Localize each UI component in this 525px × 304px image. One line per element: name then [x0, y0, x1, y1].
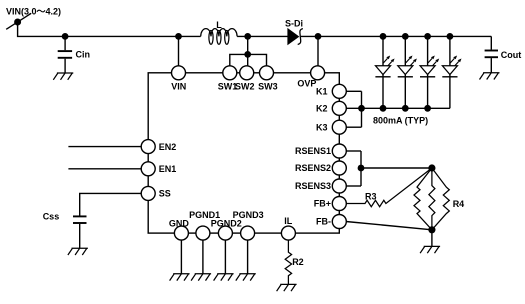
svg-text:SW3: SW3 [258, 82, 278, 92]
capacitor Cin [58, 36, 72, 73]
svg-text:OVP: OVP [297, 79, 316, 89]
svg-text:Cout: Cout [501, 50, 522, 60]
wire RSENS bus vertical [360, 151, 362, 186]
svg-text:Css: Css [43, 212, 60, 222]
diode S-Di [288, 29, 303, 45]
svg-text:SW2: SW2 [235, 82, 255, 92]
svg-text:L: L [216, 20, 222, 30]
svg-text:GND: GND [169, 219, 190, 229]
wire GND drop [180, 233, 182, 274]
pin K1 [316, 84, 346, 98]
junction R4 bottom node [428, 226, 435, 233]
svg-text:K3: K3 [316, 122, 328, 132]
pin SW3 [258, 66, 278, 92]
svg-text:EN1: EN1 [159, 164, 177, 174]
LED D2 [398, 36, 417, 108]
wire K1 link [346, 90, 362, 92]
ground PGND2 [214, 274, 234, 281]
junction LED2 anode node [402, 33, 409, 40]
pin PGND3 [233, 210, 264, 240]
pin RSENS2 [295, 161, 346, 175]
svg-text:IL: IL [284, 216, 293, 226]
LED D3 [420, 36, 439, 108]
pin RSENS3 [295, 179, 346, 193]
IC U1 body [148, 73, 339, 233]
svg-text:SS: SS [159, 189, 171, 199]
svg-text:RSENS1: RSENS1 [295, 146, 331, 156]
wire OVP pin drop [317, 36, 319, 72]
wire RSENS3 link [346, 185, 361, 187]
wire input rail [18, 22, 201, 36]
junction LED4 anode node [447, 33, 454, 40]
wire EN2 input [68, 146, 148, 148]
ground PGND1 [191, 274, 211, 281]
svg-text:K1: K1 [316, 87, 328, 97]
ground GND [170, 274, 190, 281]
wire rail L to diode [237, 35, 288, 37]
resistor R4 middle [429, 168, 435, 230]
pin IL [281, 216, 295, 240]
svg-text:PGND3: PGND3 [233, 210, 264, 220]
wire FB- to R4 bottom [346, 222, 432, 230]
ground R2 [277, 284, 297, 291]
wire R4 ground drop [431, 230, 433, 247]
svg-text:VIN: VIN [171, 82, 186, 92]
junction RSENS2 node [358, 165, 365, 172]
wire VIN pin drop [178, 36, 180, 72]
wire EN1 input [68, 168, 148, 170]
svg-text:RSENS2: RSENS2 [295, 163, 331, 173]
wire K bus vertical [361, 91, 363, 127]
svg-text:K2: K2 [316, 104, 328, 114]
svg-text:R4: R4 [453, 199, 465, 209]
wire SW1 drop [230, 54, 248, 72]
wire SW2 drop [247, 54, 249, 72]
pin EN2 [141, 140, 176, 154]
junction SW node [244, 33, 251, 40]
wire RSENS1 link [346, 150, 361, 152]
wire K3 link [346, 126, 362, 128]
pin K2 [316, 101, 346, 115]
pin K3 [316, 120, 346, 134]
junction LED3 anode node [424, 33, 431, 40]
junction SW splitter [244, 51, 251, 58]
wire K2 to cathode bus [346, 107, 450, 109]
junction LED1 anode node [380, 33, 387, 40]
capacitor Css [73, 216, 87, 248]
junction LED cathode node [424, 105, 431, 112]
pin SW2 [235, 66, 255, 92]
svg-text:FB+: FB+ [314, 199, 331, 209]
svg-text:S-Di: S-Di [285, 19, 303, 29]
LED D4 [442, 36, 461, 108]
pin RSENS1 [295, 144, 346, 158]
svg-text:800mA (TYP): 800mA (TYP) [373, 116, 428, 126]
wire SW branch drop [247, 36, 249, 54]
pin OVP [297, 66, 324, 89]
pin EN1 [141, 162, 176, 176]
wire PGND2 drop [224, 233, 226, 274]
svg-text:VIN(3.0～4.2): VIN(3.0～4.2) [6, 7, 61, 17]
node VIN input terminal [6, 13, 31, 29]
wire PGND1 drop [202, 233, 204, 274]
capacitor Cout [485, 36, 498, 72]
pin PGND2 [211, 219, 242, 241]
svg-text:EN2: EN2 [159, 142, 177, 152]
junction LED cathode node [402, 105, 409, 112]
pin GND [169, 219, 190, 241]
ground Cin [53, 73, 73, 80]
junction VIN node [175, 33, 182, 40]
svg-text:R2: R2 [292, 257, 304, 267]
pin SS [141, 186, 171, 200]
ground Cout [480, 73, 500, 80]
resistor R3 [346, 168, 432, 207]
ground R4 [420, 246, 440, 253]
resistor R2 [285, 233, 291, 284]
junction OVP node [315, 33, 322, 40]
junction Cin node [62, 33, 69, 40]
ground Css [68, 248, 88, 255]
junction LED cathode node [380, 105, 387, 112]
pin FB- [316, 215, 346, 229]
svg-text:Cin: Cin [76, 50, 91, 60]
wire SS to Css [80, 193, 149, 215]
junction K bus node [358, 105, 365, 112]
svg-text:RSENS3: RSENS3 [295, 181, 331, 191]
pin FB+ [314, 197, 347, 211]
wire output rail [301, 35, 491, 37]
pin SW1 [218, 66, 238, 92]
resistor R4 left [414, 168, 432, 230]
wire RSENS2 to R4 top [361, 167, 432, 169]
junction R4 top node [428, 164, 435, 171]
wire PGND3 drop [247, 233, 249, 274]
inductor L [201, 29, 237, 45]
pin PGND1 [189, 210, 220, 240]
resistor R4 right [432, 168, 449, 230]
svg-text:FB-: FB- [316, 217, 331, 227]
ground PGND3 [236, 274, 256, 281]
LED D1 [375, 36, 394, 108]
svg-text:R3: R3 [365, 191, 377, 201]
pin VIN [171, 66, 186, 92]
wire SW3 drop [248, 54, 267, 72]
